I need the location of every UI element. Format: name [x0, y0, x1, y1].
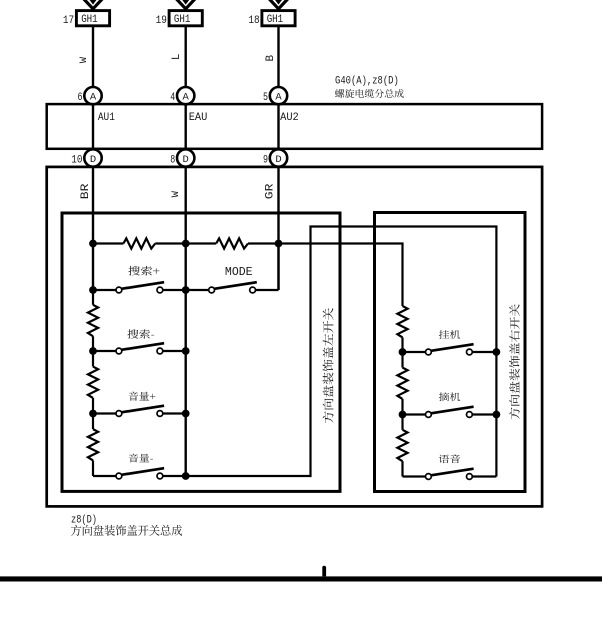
- svg-text:GH1: GH1: [81, 14, 98, 26]
- wire label BR: [80, 183, 92, 199]
- junction dot: [89, 240, 97, 248]
- svg-text:D: D: [90, 154, 96, 166]
- wire: [92, 398, 94, 414]
- switch 音量-: [93, 468, 186, 479]
- label 语音: [439, 454, 460, 463]
- wire label B: [265, 55, 277, 62]
- pin circle A4: [177, 87, 194, 104]
- connector box GH1 pin 18: [262, 11, 295, 26]
- spiral cable assembly box: [47, 104, 542, 149]
- switch 搜索-: [93, 343, 186, 354]
- ground bus tap tick: [322, 566, 326, 577]
- label 搜索-: [127, 329, 154, 338]
- right switch plate box: [375, 213, 526, 492]
- resistor ladder: [397, 430, 407, 461]
- wire BR from D10 into switch plate: [92, 167, 94, 290]
- wire: [401, 415, 403, 430]
- resistor ladder: [397, 368, 407, 399]
- svg-text:18: 18: [248, 15, 259, 27]
- wire GR branch down to MODE switch level: [277, 244, 279, 291]
- junction dot: [399, 348, 407, 356]
- wire: [92, 414, 94, 430]
- resistor ladder: [397, 306, 407, 337]
- wire: [401, 337, 403, 352]
- svg-text:19: 19: [156, 15, 167, 27]
- svg-text:8: 8: [170, 154, 175, 166]
- wire GR from D9 into switch plate: [277, 167, 279, 290]
- junction dot: [493, 348, 501, 356]
- label 方向盘装饰盖开关总成: [71, 525, 182, 536]
- svg-text:MODE: MODE: [225, 266, 253, 279]
- label 搜索+: [128, 266, 159, 276]
- wire label L: [171, 53, 183, 60]
- resistor ladder R-a: [123, 238, 155, 248]
- wire AU2 through spiral cable box: [277, 104, 279, 149]
- wire label GR: [265, 183, 277, 199]
- off-page arrow 2: [175, 0, 197, 9]
- junction dot: [89, 410, 97, 418]
- svg-text:B: B: [265, 55, 277, 62]
- svg-text:9: 9: [263, 154, 268, 166]
- wire: [93, 242, 123, 244]
- wire feed to right plate resistor column: [279, 244, 403, 307]
- junction dot: [89, 286, 97, 294]
- wire W from D8 into switch plate: [184, 167, 186, 476]
- label 方向盘装饰盖右开关 (vertical): [509, 304, 520, 419]
- svg-text:W: W: [78, 56, 90, 63]
- pin circle D8: [177, 149, 194, 166]
- svg-text:6: 6: [78, 92, 83, 104]
- wire: [401, 399, 403, 415]
- wire: [92, 351, 94, 367]
- resistor ladder: [88, 305, 98, 336]
- wire: [248, 242, 279, 244]
- junction dot: [275, 240, 283, 248]
- wire EAU through spiral cable box: [184, 104, 186, 149]
- svg-text:W: W: [170, 190, 182, 197]
- resistor ladder: [88, 429, 98, 460]
- wire: [401, 461, 403, 476]
- ground bus bar: [0, 576, 602, 581]
- wire label W: [78, 56, 90, 63]
- pin circle A5: [270, 87, 287, 104]
- svg-text:4: 4: [170, 92, 175, 104]
- left switch plate box: [62, 213, 340, 491]
- svg-text:17: 17: [63, 15, 74, 27]
- svg-text:5: 5: [263, 92, 268, 104]
- wire: [155, 242, 185, 244]
- wire label W: [170, 190, 182, 197]
- junction dot: [182, 472, 190, 480]
- junction dot: [182, 240, 190, 248]
- svg-text:GH1: GH1: [267, 14, 284, 26]
- svg-text:L: L: [171, 53, 183, 60]
- label 螺旋电缆分总成: [335, 89, 404, 98]
- label 挂机: [439, 330, 460, 339]
- switch 摘机: [403, 407, 497, 418]
- steering pad switch assembly outer box: [47, 167, 542, 507]
- svg-text:AU2: AU2: [280, 112, 299, 124]
- svg-text:BR: BR: [80, 183, 92, 199]
- resistor ladder: [88, 367, 98, 398]
- connector box GH1 pin 19: [169, 11, 202, 26]
- wire: [92, 290, 94, 305]
- pin circle A6: [84, 87, 101, 104]
- svg-text:EAU: EAU: [189, 112, 208, 124]
- label 摘机: [439, 392, 460, 401]
- wire: [186, 242, 217, 244]
- pin circle D9: [270, 149, 287, 166]
- pin circle D10: [84, 149, 101, 166]
- junction dot: [89, 347, 97, 355]
- wire: [92, 336, 94, 351]
- junction dot: [399, 411, 407, 419]
- wire AU1 through spiral cable box: [92, 104, 94, 149]
- svg-text:A: A: [183, 92, 190, 104]
- svg-text:AU1: AU1: [98, 112, 115, 124]
- switch 搜索+: [93, 282, 186, 293]
- switch MODE: [186, 282, 279, 293]
- svg-text:z8(D): z8(D): [71, 515, 97, 527]
- off-page arrow 1: [82, 0, 104, 9]
- junction dot: [182, 347, 190, 355]
- wire: [401, 352, 403, 368]
- svg-text:GR: GR: [265, 183, 277, 199]
- junction dot: [182, 410, 190, 418]
- junction dot: [182, 286, 190, 294]
- connector box GH1 pin 17: [76, 11, 109, 26]
- svg-text:10: 10: [71, 154, 82, 166]
- svg-text:GH1: GH1: [174, 14, 191, 26]
- wire bottom row riser to right plate: [186, 227, 497, 477]
- wire L from GH1-19 to A4: [184, 26, 186, 87]
- svg-text:D: D: [275, 154, 281, 166]
- label 音量+: [129, 391, 156, 400]
- label 方向盘装饰盖左开关 (vertical): [323, 308, 334, 423]
- off-page arrow 3: [268, 0, 290, 9]
- wire: [92, 460, 94, 476]
- label 音量-: [129, 454, 153, 463]
- wire B from GH1-18 to A5: [277, 26, 279, 87]
- svg-text:G40(A),z8(D): G40(A),z8(D): [335, 76, 399, 88]
- junction dot: [493, 411, 501, 419]
- wire W from GH1-17 to A6: [92, 26, 94, 87]
- svg-text:A: A: [90, 92, 97, 104]
- svg-text:A: A: [275, 92, 282, 104]
- switch 挂机: [403, 344, 497, 355]
- switch 语音: [403, 469, 497, 480]
- resistor ladder R-b: [216, 238, 248, 248]
- svg-text:D: D: [183, 154, 189, 166]
- switch 音量+: [93, 406, 186, 417]
